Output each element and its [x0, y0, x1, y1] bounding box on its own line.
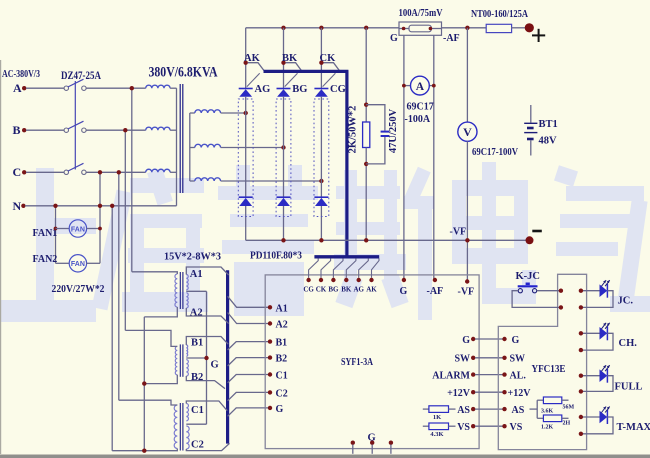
terminal SW of YFC13E [502, 356, 506, 360]
junction on negative rail [319, 238, 323, 242]
terminal dots LED JC. [579, 289, 583, 293]
gate-wire bundle fan-out bar [314, 255, 379, 258]
junction on negative rail [281, 238, 285, 242]
terminal -AF of SYF1-3A [433, 278, 437, 282]
svg-text:PD110F.80*3: PD110F.80*3 [250, 251, 302, 262]
thyristor VA body [239, 89, 252, 97]
thyristor VB cathode node BK [281, 61, 285, 65]
ammeter PA leads [404, 85, 411, 87]
svg-text:G: G [390, 33, 398, 44]
svg-text:47U/250V: 47U/250V [388, 108, 399, 153]
bottom stub terminal of SYF1-3A [370, 441, 374, 445]
wire secondary c to bridge column C [221, 180, 322, 182]
svg-text:VS: VS [457, 422, 470, 433]
transformer TA secondary winding 1 [186, 275, 188, 290]
bridge column A upper wire [245, 28, 247, 89]
svg-text:N: N [13, 199, 22, 213]
wire primary coil to star point [170, 87, 176, 89]
neutral collector wire [143, 317, 145, 451]
transformer TA primary winding [175, 274, 177, 307]
transformer TC secondary winding 1 [186, 404, 188, 421]
terminal dots LED CH. [579, 331, 583, 335]
bridge column B lower wire [283, 206, 285, 240]
transformer T1 secondary star wire [189, 113, 191, 181]
svg-text:48V: 48V [539, 136, 558, 147]
svg-text:G: G [211, 360, 219, 371]
wire G to YFC13E [475, 338, 503, 340]
wire bundle to terminal A2 [228, 313, 270, 324]
svg-text:B: B [13, 123, 21, 137]
wire bundle fan-out to AG [359, 258, 369, 277]
center-tap G wire [186, 290, 206, 292]
svg-text:ALARM: ALARM [432, 370, 470, 381]
wire LED T-MAX return [581, 417, 613, 434]
svg-text:100A/75mV: 100A/75mV [399, 8, 443, 19]
capacitor C1 47U/250V plates [381, 131, 390, 133]
breaker DZ47-25A pole B contacts [64, 128, 68, 132]
svg-text:AS: AS [457, 405, 470, 416]
feed wire N down [111, 206, 113, 451]
svg-text:AK: AK [366, 286, 377, 294]
cathode AK bend into gate-wire bundle [248, 63, 265, 72]
svg-text:SYF1-3A: SYF1-3A [341, 356, 373, 368]
terminal AL. of YFC13E [502, 372, 506, 376]
svg-text:C1: C1 [191, 405, 204, 416]
svg-text:NT00-160/125A: NT00-160/125A [471, 9, 528, 20]
wire phase C feed to TC primary [119, 400, 178, 405]
terminal dots LED T-MAX [579, 415, 583, 419]
terminal B1 of SYF1-3A [268, 339, 272, 343]
diode DC cathode bar [314, 196, 328, 198]
bridge column A lower wire [245, 206, 247, 240]
module PD110F dashed outline column B [276, 99, 291, 217]
svg-text:G: G [512, 335, 520, 346]
transformer T1 secondary coil c [190, 180, 195, 182]
terminal BK of SYF1-3A [344, 278, 348, 282]
wire secondary b to bridge column B [221, 147, 284, 149]
snubber branch upper wire [365, 28, 367, 122]
svg-text:2K/50W*2: 2K/50W*2 [347, 106, 358, 154]
terminal VS of YFC13E [502, 424, 506, 428]
svg-text:A: A [416, 81, 425, 93]
svg-text:AC-380V/3: AC-380V/3 [2, 69, 40, 80]
svg-text:B2: B2 [276, 354, 288, 365]
svg-text:G: G [462, 335, 470, 346]
thyristor VC body [315, 89, 328, 97]
transformer TC secondary winding 2 [186, 426, 189, 449]
svg-text:C2: C2 [276, 388, 288, 399]
bridge column B upper wire [283, 28, 285, 89]
junction on positive rail [281, 26, 285, 30]
svg-text:AL.: AL. [510, 370, 527, 381]
svg-text:220V/27W*2: 220V/27W*2 [52, 284, 105, 295]
fuse FU body [486, 24, 511, 32]
transformer T1 core [179, 84, 181, 193]
transformer TB secondary winding 2 [186, 360, 188, 376]
diode DA cathode bar [239, 196, 253, 198]
svg-text:G: G [276, 404, 284, 415]
breaker DZ47-25A pole A contacts [64, 86, 68, 90]
wire bundle fan-out to CK [321, 258, 331, 277]
wire primary coil to star point [170, 171, 176, 173]
svg-text:CK: CK [316, 286, 327, 294]
wire TB primary bottom to neutral collector [144, 375, 177, 384]
svg-text:C2: C2 [191, 440, 204, 451]
bridge column C upper wire [320, 28, 322, 89]
wire neutral N to transformer star point [25, 205, 177, 207]
wire SW to YFC13E [475, 357, 503, 359]
svg-text:T-MAX: T-MAX [617, 422, 650, 433]
svg-text:-VF: -VF [458, 287, 475, 298]
diode DC body [315, 198, 328, 206]
battery BT1 top lead [530, 105, 532, 123]
transformer TC core [179, 403, 181, 451]
minus sign [532, 230, 542, 233]
junction on positive rail [364, 26, 368, 30]
terminal CG of SYF1-3A [306, 278, 310, 282]
snubber branch lower wire [365, 148, 367, 241]
LED FULL emission arrows [602, 365, 607, 371]
svg-text:1K: 1K [433, 414, 441, 421]
watermark text band [36, 168, 54, 308]
module U2 YFC13E box [498, 274, 586, 449]
bridge column C lower wire [320, 206, 322, 240]
LED T-MAX [600, 411, 608, 424]
wire LED JC. return [581, 291, 613, 308]
bottom stub terminal of SYF1-3A [389, 441, 393, 445]
wire bundle fan-out to AK [372, 258, 380, 277]
wire K-JC left to terminal [512, 291, 561, 308]
transformer T1 primary coil phase C [146, 169, 170, 172]
fan branch right wire from phase C [99, 172, 101, 263]
resistor R1 2K/50W*2 [363, 122, 370, 148]
terminal AS of YFC13E [502, 407, 506, 411]
fan branch left wire [55, 206, 57, 263]
svg-text:380V/6.8KVA: 380V/6.8KVA [149, 65, 218, 81]
breaker DZ47-25A pole C contacts [64, 170, 68, 174]
bridge column B middle wire [283, 97, 285, 197]
svg-text:CG: CG [303, 286, 314, 294]
wire A1 into bundle [186, 267, 228, 275]
transformer T1 secondary coil b [190, 147, 195, 149]
wire AS to YFC13E [475, 408, 503, 410]
svg-text:C1: C1 [276, 371, 288, 382]
svg-text:2H: 2H [563, 421, 571, 427]
transformer TB core [179, 344, 181, 376]
terminal VS right of SYF1-3A [471, 424, 475, 428]
svg-text:A1: A1 [190, 269, 203, 280]
wire B1 into bundle [186, 337, 228, 346]
terminal -VF of SYF1-3A [465, 279, 469, 283]
terminal A1 of SYF1-3A [268, 305, 272, 309]
terminal +12V of YFC13E [502, 390, 506, 394]
wire primary star point [176, 88, 178, 206]
svg-text:AG: AG [255, 84, 271, 95]
svg-text:V: V [463, 125, 472, 139]
svg-text:69C17-100V: 69C17-100V [472, 147, 518, 158]
wire bundle to terminal C1 [228, 375, 270, 383]
LED JC. emission arrows [602, 280, 607, 286]
shunt FL element bar [409, 25, 431, 32]
svg-text:BG: BG [292, 84, 307, 95]
transformer TA secondary winding 2 [186, 293, 188, 308]
transformer TC primary winding [174, 405, 177, 449]
svg-text:FAN: FAN [71, 261, 85, 268]
wire C1 into bundle [186, 401, 227, 411]
bottom stub terminal of SYF1-3A [351, 441, 355, 445]
terminal G right of SYF1-3A [471, 337, 475, 341]
positive output terminal [525, 23, 534, 32]
svg-text:B1: B1 [191, 338, 203, 349]
svg-text:JC.: JC. [618, 296, 634, 307]
battery BT1 bottom lead [530, 140, 532, 155]
svg-text:A2: A2 [276, 320, 288, 331]
diode DA body [239, 198, 252, 206]
terminal A2 of SYF1-3A [268, 321, 272, 325]
terminal C2 of SYF1-3A [268, 390, 272, 394]
wire C2 into bundle [186, 443, 229, 450]
LED T-MAX emission arrows [602, 407, 607, 413]
svg-text:CH.: CH. [619, 338, 638, 349]
breaker pole A blade [68, 79, 84, 87]
capacitor C1 bottom lead [366, 137, 385, 164]
wire A2 into bundle [186, 308, 228, 324]
wire to LED JC. [581, 290, 600, 292]
svg-text:A2: A2 [190, 308, 203, 319]
wire to LED FULL [581, 375, 600, 377]
terminal BG of SYF1-3A [331, 278, 335, 282]
breaker pole C blade [68, 163, 84, 171]
wire bundle fan-out to CG [309, 258, 319, 277]
LED CH. [600, 327, 608, 340]
svg-text:C: C [13, 165, 22, 179]
svg-text:A: A [13, 81, 22, 95]
feed wire C down [118, 172, 120, 400]
wire bundle to terminal G [228, 408, 270, 416]
svg-text:G: G [400, 286, 408, 297]
voltmeter PV branch wire lower [466, 141, 468, 281]
wire B2 into bundle [186, 376, 225, 389]
terminal +12V right of SYF1-3A [471, 390, 475, 394]
page border bottom strip [0, 455, 650, 458]
svg-text:VS: VS [510, 422, 523, 433]
diode DB cathode bar [277, 196, 291, 198]
thyristor VA gate lead [247, 73, 260, 86]
ammeter PA [411, 76, 430, 95]
gate-wire bundle horizontal bus [264, 70, 349, 73]
wire ALARM to YFC13E [475, 374, 503, 376]
diode DB body [277, 198, 290, 206]
fan M2 [56, 262, 70, 264]
negative output terminal [526, 236, 534, 244]
svg-text:15V*2-8W*3: 15V*2-8W*3 [164, 252, 221, 263]
svg-text:FAN: FAN [71, 226, 85, 233]
terminal ALARM right of SYF1-3A [471, 372, 475, 376]
resistor R3 4.3K [423, 425, 429, 427]
transformer T1 primary coil phase A [146, 85, 170, 88]
transformer T1 secondary coil a [190, 112, 195, 114]
LED CH. emission arrows [602, 323, 607, 329]
wire phase B to breaker [26, 129, 64, 131]
svg-text:-AF: -AF [443, 33, 460, 44]
capacitor C1 top lead [366, 105, 385, 131]
thyristor VB cathode bar [277, 88, 291, 90]
svg-text:BK: BK [341, 286, 352, 294]
voltmeter PV [458, 122, 477, 141]
svg-text:+12V: +12V [508, 388, 532, 399]
controller U1 SYF1-3A box [265, 275, 479, 449]
shunt internal leads [399, 28, 409, 30]
terminal dots LED FULL [579, 374, 583, 378]
thyristor VA cathode node AK [244, 61, 248, 65]
wire bundle to terminal B2 [228, 358, 270, 366]
gate-wire bundle vertical run [345, 70, 348, 257]
wire primary coil to star point [170, 129, 176, 131]
svg-text:BG: BG [328, 286, 339, 294]
LED FULL [600, 369, 608, 382]
ammeter PA wire taps [403, 35, 405, 280]
thyristor VC cathode node CK [319, 61, 323, 65]
wire secondary a to bridge column A [221, 112, 246, 114]
terminal AS right of SYF1-3A [471, 407, 475, 411]
terminal B2 of SYF1-3A [268, 355, 272, 359]
transformer TB primary winding [175, 346, 177, 374]
terminal AK of SYF1-3A [369, 278, 373, 282]
wire +12V to YFC13E [475, 391, 503, 393]
terminal G of YFC13E [502, 337, 506, 341]
plus sign [532, 34, 545, 36]
fan M1 [54, 227, 58, 231]
breaker mechanical tie link [74, 81, 76, 170]
feed wire B down [124, 130, 126, 330]
svg-text:-VF: -VF [450, 227, 467, 238]
junction on positive rail [319, 26, 323, 30]
resistor R5 1.2K [537, 417, 543, 419]
sync wire bundle [226, 270, 229, 443]
svg-text:1.2K: 1.2K [541, 425, 554, 431]
resistor R2 1K [423, 408, 429, 410]
wire phase A feed to TA primary [132, 272, 178, 274]
wire bundle fan-out to BK [346, 258, 356, 277]
wire shunt to fuse junction [442, 27, 487, 29]
svg-text:B1: B1 [276, 338, 288, 349]
thyristor VB gate lead [285, 73, 298, 86]
shunt FL outer body [399, 22, 442, 35]
wire breaker B output [86, 129, 146, 131]
svg-text:FAN1: FAN1 [33, 228, 58, 239]
svg-text:56M: 56M [563, 405, 575, 411]
terminal G top of SYF1-3A [402, 278, 406, 282]
terminal dots K-JC rows [559, 289, 563, 293]
bridge column C middle wire [320, 97, 322, 197]
thyristor VA cathode bar [239, 88, 253, 90]
svg-text:69C17: 69C17 [407, 102, 434, 113]
breaker pole B blade [68, 121, 84, 129]
transformer TA core [179, 272, 181, 309]
cathode BK bend into gate-wire bundle [286, 63, 302, 72]
feed wire A down [131, 88, 133, 272]
svg-text:K-JC: K-JC [516, 271, 541, 282]
svg-text:YFC13E: YFC13E [532, 364, 566, 375]
wire K-JC right to terminal [537, 290, 561, 292]
svg-text:B2: B2 [191, 372, 203, 383]
wire phase B feed to TB primary [125, 330, 177, 346]
junction on negative rail [364, 238, 368, 242]
terminal C1 of SYF1-3A [268, 372, 272, 376]
svg-text:BT1: BT1 [539, 119, 558, 130]
terminal G of SYF1-3A [268, 406, 272, 410]
wire bundle to terminal C2 [228, 392, 270, 400]
wire bundle to terminal A1 [228, 296, 270, 307]
wire bundle to terminal B1 [228, 342, 270, 350]
terminal AG of SYF1-3A [357, 278, 361, 282]
svg-text:-AF: -AF [427, 286, 444, 297]
wire VS to YFC13E [475, 425, 503, 427]
wire breaker A output [86, 87, 146, 89]
negative rail -VF [246, 239, 530, 241]
wire breaker C output [86, 171, 146, 173]
svg-text:AS: AS [512, 405, 525, 416]
wire phase A to breaker [26, 87, 64, 89]
svg-text:-100A: -100A [405, 114, 431, 125]
cathode CK bend into gate-wire bundle [324, 63, 341, 72]
terminal SW right of SYF1-3A [471, 356, 475, 360]
wire TA primary bottom to neutral collector [144, 307, 177, 317]
wire LED FULL return [581, 376, 613, 392]
transformer TB secondary winding 1 [186, 345, 187, 356]
svg-text:3.6K: 3.6K [541, 409, 554, 415]
LED JC. [600, 284, 608, 297]
resistor R4 3.6K network [530, 408, 538, 410]
svg-text:4.3K: 4.3K [430, 431, 443, 438]
thyristor VC gate lead [323, 73, 336, 86]
bridge column A middle wire [245, 97, 247, 197]
positive rail wire to shunt [246, 27, 399, 29]
wire to LED CH. [581, 332, 600, 334]
page border left edge [0, 60, 2, 454]
svg-text:CG: CG [330, 84, 346, 95]
wire fuse to positive terminal [511, 27, 525, 29]
svg-text:SW: SW [510, 354, 526, 365]
wire bundle fan-out to BG [333, 258, 343, 277]
svg-text:AG: AG [353, 286, 364, 294]
svg-text:SW: SW [454, 354, 470, 365]
relay contact K-JC [518, 289, 522, 293]
wire LED CH. return [581, 333, 613, 350]
wire phase C to breaker [26, 171, 64, 173]
terminal CK of SYF1-3A [319, 278, 323, 282]
battery BT1 plates [524, 122, 537, 124]
module PD110F dashed outline column A [238, 99, 253, 217]
junction on negative rail [465, 238, 469, 242]
svg-text:A1: A1 [276, 303, 288, 314]
thyristor VB body [277, 89, 290, 97]
module PD110F dashed outline column C [314, 99, 329, 217]
transformer T1 primary coil phase B [146, 127, 170, 130]
svg-text:FAN2: FAN2 [33, 254, 58, 265]
svg-text:+12V: +12V [447, 388, 471, 399]
svg-text:FULL: FULL [615, 382, 643, 393]
voltmeter PV branch wire upper [466, 28, 468, 122]
wire TC primary bottom and neutral [112, 449, 177, 451]
thyristor VC cathode bar [314, 88, 328, 90]
wire to LED T-MAX [581, 416, 600, 418]
